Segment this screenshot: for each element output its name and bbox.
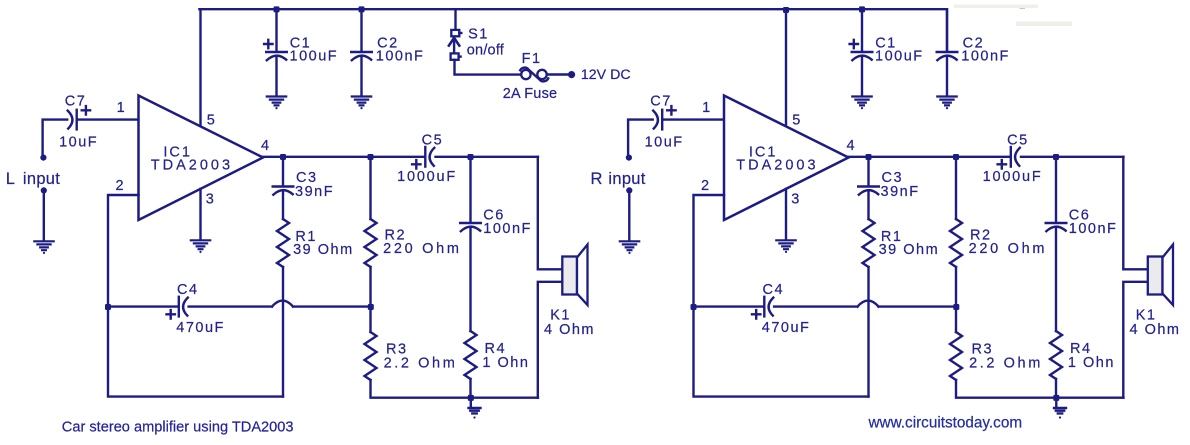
svg-text:R: R xyxy=(591,170,603,188)
svg-text:S1: S1 xyxy=(468,26,489,42)
svg-text:on/off: on/off xyxy=(467,43,505,59)
svg-text:2A Fuse: 2A Fuse xyxy=(503,86,558,102)
svg-text:Car stereo amplifier using TDA: Car stereo amplifier using TDA2003 xyxy=(62,419,294,435)
svg-text:L: L xyxy=(6,170,15,188)
svg-text:F1: F1 xyxy=(522,51,542,67)
svg-text:12V DC: 12V DC xyxy=(581,67,631,83)
svg-text:www.circuitstoday.com: www.circuitstoday.com xyxy=(868,415,1023,432)
